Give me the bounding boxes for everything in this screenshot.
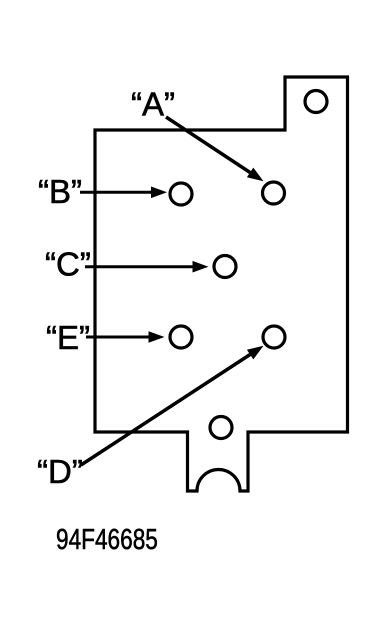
svg-text:“D”: “D” (37, 453, 83, 490)
hole top tab (305, 91, 327, 113)
bracket outline (95, 77, 348, 491)
hole B (170, 183, 192, 205)
hole D (263, 326, 285, 348)
arrow A (166, 117, 250, 173)
arrow C (85, 265, 194, 268)
svg-text:94F46685: 94F46685 (56, 522, 158, 555)
arrow E (86, 336, 150, 339)
hole C (214, 256, 236, 278)
hole A (263, 182, 285, 204)
svg-text:“B”: “B” (38, 173, 82, 210)
svg-text:“E”: “E” (46, 319, 90, 356)
hole bottom tab (210, 417, 232, 439)
svg-text:“C”: “C” (45, 246, 91, 283)
hole E (170, 326, 192, 348)
arrow B (80, 191, 152, 194)
arrow D (81, 355, 250, 466)
